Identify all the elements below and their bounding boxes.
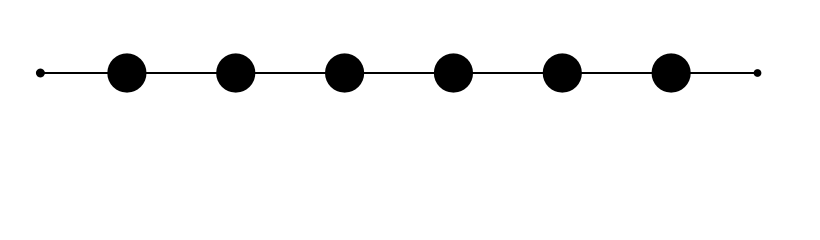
node V3 (large filled circle) <box>325 53 364 92</box>
wire segment: left terminal to node V1 <box>40 72 127 74</box>
wire segment: node V4 to node V5 <box>453 72 562 74</box>
wire segment: node V6 to right terminal <box>671 72 757 74</box>
node: left endpoint terminal (small junction dot) <box>36 69 45 78</box>
node V2 (large filled circle) <box>216 53 255 92</box>
wire segment: node V3 to node V4 <box>345 72 454 74</box>
wire segment: node V5 to node V6 <box>562 72 671 74</box>
node V1 (large filled circle) <box>107 53 146 92</box>
node V5 (large filled circle) <box>543 53 582 92</box>
wire segment: node V1 to node V2 <box>127 72 236 74</box>
wire segment: node V2 to node V3 <box>236 72 345 74</box>
node V6 (large filled circle) <box>652 53 691 92</box>
node: right endpoint terminal (small junction dot) <box>754 69 762 77</box>
node V4 (large filled circle) <box>434 53 473 92</box>
